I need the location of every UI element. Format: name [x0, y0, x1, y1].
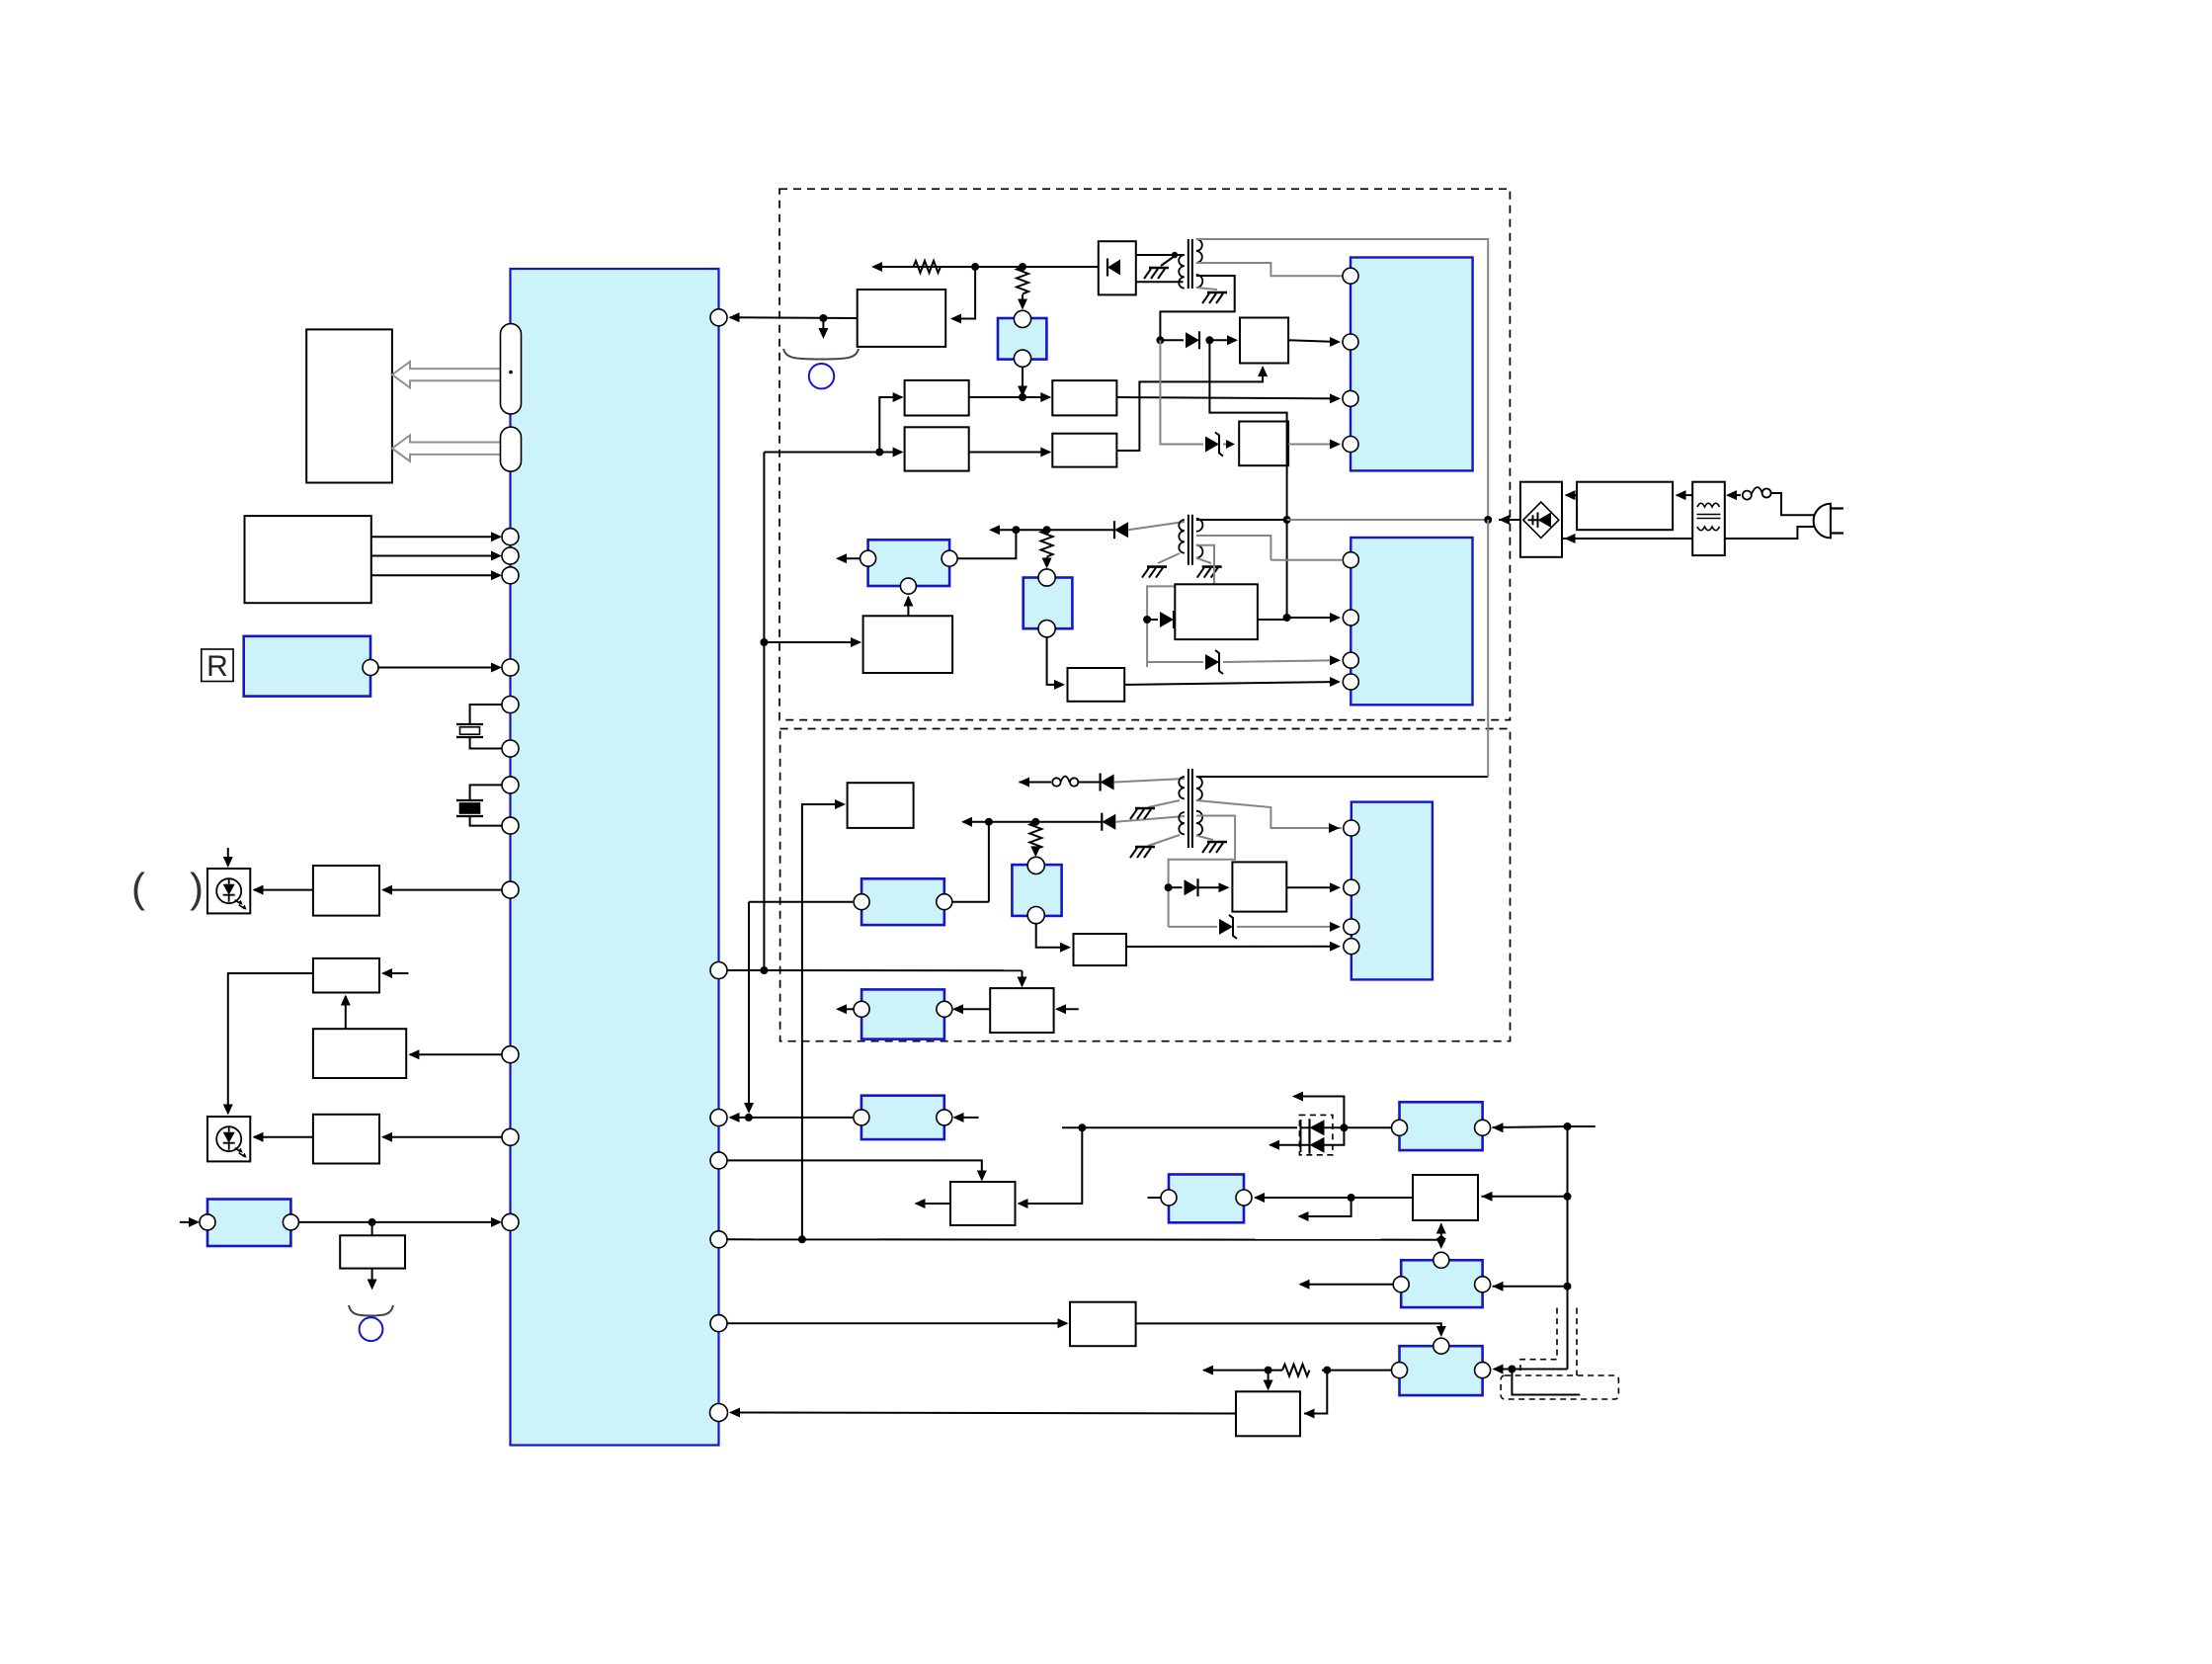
transformer T2 core — [1188, 515, 1192, 565]
wire dd top stub — [1294, 1097, 1345, 1128]
junction x1586 c — [1564, 1283, 1572, 1290]
wire B5 down — [371, 1269, 373, 1288]
wire W3 out — [1258, 619, 1287, 621]
wire T3 gnd3 lead — [1196, 836, 1213, 841]
pin TR3 top — [1434, 1338, 1449, 1354]
line filter box — [1577, 482, 1673, 531]
wire row2 — [963, 821, 1102, 823]
resistor R-sense — [914, 261, 942, 273]
IC2 pin1 — [1343, 268, 1358, 284]
wire reset to PC4 — [954, 1008, 991, 1010]
wire to comparator — [764, 641, 860, 643]
T1 right winding upper — [1196, 239, 1202, 263]
AC plug — [1814, 504, 1831, 539]
wire T1 to gnd right — [1196, 288, 1217, 290]
arrowhead — [491, 570, 502, 580]
zener Z3 — [1219, 919, 1233, 935]
node circle box1 — [809, 364, 834, 388]
svg-text:(: ( — [131, 865, 145, 911]
T1 right winding lower — [1196, 275, 1203, 288]
wire driver to T1 a — [1136, 254, 1185, 256]
wire Z2 to IC3 pin3 — [1223, 660, 1339, 662]
wire D1 to W1 — [1209, 339, 1236, 341]
block TR4 — [1169, 1175, 1244, 1223]
wire VR3 to W2 — [1047, 637, 1063, 685]
junction W3/B+ — [1283, 614, 1291, 622]
stub right of junction — [1568, 1125, 1596, 1127]
wire T1 top to riser — [1196, 239, 1488, 520]
dual diode DD1 — [1300, 1120, 1302, 1152]
IC pin key — [502, 567, 519, 584]
wire remote to IC — [378, 667, 500, 669]
wire junction to TR1 — [1493, 1126, 1568, 1127]
wire filter to bridge — [1566, 494, 1577, 496]
comparator box — [863, 616, 953, 673]
wire Z3 to IC4 pin3 — [1237, 926, 1339, 928]
wire into LED1 top — [227, 848, 229, 866]
T3 left winding lower — [1179, 812, 1185, 834]
wire fuse to plug hot — [1771, 493, 1815, 515]
wire IC to B3 — [410, 1053, 502, 1055]
transformer T1 core — [1188, 239, 1192, 289]
wire to protect right — [952, 267, 976, 319]
wire B2 to LED2 — [228, 973, 313, 1113]
junction connector — [1508, 1366, 1516, 1373]
bus arrow to display (lower) — [392, 436, 503, 461]
junction D6 anode — [1165, 883, 1173, 891]
IC2 pin4 — [1343, 437, 1358, 453]
wire R4 to VR2 — [1034, 850, 1036, 855]
regulator VR3 — [1024, 578, 1073, 629]
dashed connector strip — [1501, 1375, 1618, 1399]
wire B+ sense row — [873, 266, 1099, 268]
block TR3 — [1400, 1346, 1483, 1395]
wire T2 right gnd lead — [1196, 558, 1211, 563]
pin TR3 right — [1475, 1363, 1491, 1378]
junction row2 b — [1031, 818, 1039, 826]
IC connector pill 2 — [501, 427, 522, 471]
wire res left — [1203, 1370, 1282, 1372]
IC pin X1a — [502, 697, 519, 713]
IC pin standby B — [710, 1110, 727, 1126]
osc box A — [905, 380, 969, 416]
amp box AB1 — [1236, 1391, 1300, 1436]
wire T1 aux to diode — [1160, 276, 1234, 340]
pin TR4 right — [1236, 1190, 1252, 1206]
riser wire x812 — [802, 804, 844, 1239]
pin VR2 bottom — [1027, 907, 1044, 924]
IC pin D — [710, 1231, 727, 1248]
diode D2 — [1114, 522, 1128, 538]
T3 right winding upper — [1196, 777, 1202, 800]
block PC6 — [861, 1096, 944, 1139]
IC pin B1 — [502, 881, 519, 898]
wire right into AB1 — [1304, 1371, 1327, 1414]
drive box R1 — [1052, 380, 1116, 415]
junction R2 — [1019, 263, 1026, 271]
pin TR3 left — [1392, 1363, 1408, 1378]
reg box W1 — [1240, 318, 1288, 364]
resistor R4 — [1029, 822, 1041, 850]
pin PC6 left — [854, 1110, 869, 1125]
wire IC to B1 — [383, 889, 503, 891]
bridge rectifier BR1 — [1520, 482, 1562, 557]
ground T2 right — [1202, 565, 1222, 568]
ground T3 right — [1207, 841, 1227, 844]
junction T1 left — [1172, 252, 1178, 258]
arrowhead — [491, 532, 502, 541]
stub reset right — [1057, 1008, 1079, 1010]
ground T1 left — [1149, 267, 1169, 270]
pin TR2 left — [1393, 1277, 1409, 1292]
wire to TR3 right — [1514, 1369, 1568, 1371]
driver box B2 — [313, 958, 379, 993]
wire PC6 to IC — [730, 1117, 861, 1119]
wire fuse to PT — [1728, 494, 1742, 496]
pin VR1 bottom — [1014, 350, 1030, 367]
T1 left winding — [1179, 255, 1185, 289]
buzzer circle — [360, 1317, 383, 1341]
junction ACdet — [369, 1218, 376, 1226]
reg box W2 — [1068, 668, 1125, 702]
junction riser x812 — [798, 1235, 806, 1243]
wire AB1 to IC — [731, 1413, 1237, 1414]
reg box W1b — [1239, 422, 1288, 466]
pin VR1 top — [1014, 310, 1030, 327]
stub PC3 left — [838, 557, 860, 559]
reset box — [990, 988, 1053, 1033]
pin ACdet in — [200, 1214, 215, 1230]
wire T3 aux loop — [1169, 816, 1236, 927]
wire T2 left gnd lead — [1158, 553, 1180, 563]
regulator VR2 — [1012, 865, 1061, 916]
junction row2 a — [985, 818, 993, 826]
wire PC5 to row2 riser — [952, 901, 989, 903]
wire down to reset box — [1022, 970, 1024, 985]
IC pin X2b — [502, 817, 519, 834]
wire CB1 to TR3 — [1136, 1323, 1441, 1335]
riser DC to T3 — [1487, 520, 1489, 777]
reg box W3 — [1175, 584, 1258, 639]
wire stub down-left — [1299, 1198, 1352, 1216]
stub mute out — [916, 1203, 950, 1205]
wire junction to TR2 — [1493, 1286, 1565, 1288]
junction comparator feed — [760, 638, 768, 646]
T3 left winding upper — [1179, 777, 1185, 798]
junction D1 anode — [1156, 336, 1164, 344]
pin PC3 left — [860, 550, 876, 566]
stub into ACdet — [180, 1221, 198, 1223]
svg-text:): ) — [190, 865, 204, 911]
regulator VR1 — [998, 318, 1046, 360]
transformer T3 core — [1188, 769, 1192, 848]
pin TR2 top — [1434, 1252, 1449, 1268]
wire X2 top — [470, 785, 502, 800]
diode D3 — [1160, 612, 1174, 627]
wire PC3 to row2 — [957, 531, 1016, 558]
vertical wire x1586 — [1567, 1126, 1569, 1370]
detect block PC4 — [861, 989, 944, 1039]
wire comp to PC3 — [907, 597, 909, 616]
pin PC6 right — [937, 1110, 952, 1125]
standby box E1 — [848, 783, 914, 828]
block TR2 — [1401, 1260, 1482, 1307]
IC pin standby A — [710, 962, 727, 979]
wire to vreg1 — [1022, 294, 1024, 307]
junction DC rail — [1484, 516, 1492, 524]
block TR1 — [1400, 1102, 1483, 1150]
T3 right winding lower — [1196, 811, 1202, 836]
resistor R5 — [1282, 1365, 1310, 1376]
pin VR3 top — [1038, 569, 1055, 586]
wire pinC row — [727, 1160, 982, 1179]
IC3 pin2 — [1343, 610, 1358, 625]
wire to D3 — [1147, 619, 1158, 621]
wire down to AB1 — [1268, 1371, 1270, 1388]
junction T2 res — [1043, 526, 1051, 534]
IC pin E — [710, 1315, 727, 1332]
wire W1 to IC2 pin2 — [1288, 340, 1339, 342]
wire X1 bottom — [470, 737, 502, 749]
mute box — [950, 1182, 1016, 1225]
wire D5 to T3 — [1115, 816, 1185, 822]
pin PC5 left — [854, 894, 869, 910]
wire to zener Z1 — [1160, 340, 1203, 444]
IC3 pin4 — [1343, 674, 1358, 690]
bracket symbol — [349, 1305, 393, 1316]
junction updown — [1437, 1236, 1445, 1244]
drive box R2 — [1052, 434, 1116, 467]
wire to B5 — [371, 1222, 373, 1235]
IC2 pin2 — [1343, 334, 1358, 350]
display unit box — [306, 329, 392, 482]
wire T3 gnd2 lead — [1148, 835, 1180, 846]
diode D1 — [1186, 332, 1199, 348]
wire down to TR2 — [1440, 1240, 1442, 1247]
wire pinE row — [727, 1322, 1067, 1324]
dual diode lower — [1310, 1137, 1325, 1153]
wire dd right lower — [1325, 1127, 1345, 1144]
wire protect to IC — [730, 316, 858, 319]
pin VR3 bottom — [1038, 621, 1055, 637]
stub PC4 left — [838, 1008, 854, 1010]
IC4 pin1 — [1344, 820, 1359, 836]
power transformer PT box — [1692, 482, 1725, 555]
wire key line — [371, 536, 500, 538]
wire Z1 gap — [1223, 444, 1233, 446]
bus arrow to display (upper) — [392, 362, 503, 387]
key input box — [245, 516, 371, 603]
sub reg block PC5 — [861, 878, 944, 925]
wire DC rail to bridge — [1287, 519, 1489, 521]
wire D2 to T2 — [1128, 522, 1185, 530]
control box CB1 — [1070, 1302, 1136, 1347]
wire row2 to PC5 riser — [988, 822, 990, 902]
ground T3 left lower — [1135, 846, 1155, 849]
wire riser to PC5 — [749, 901, 853, 903]
dashed power box 2 — [780, 729, 1511, 1041]
opto feedback block PC3 — [868, 540, 950, 586]
IC3 pin3 — [1343, 652, 1358, 668]
junction box2 out — [1348, 1194, 1355, 1202]
IC pin ACdet — [502, 1213, 519, 1230]
pin TR1 left — [1392, 1120, 1408, 1135]
IC2 pin3 — [1343, 390, 1358, 406]
zener Z1 — [1205, 437, 1219, 453]
resistor R-drop — [1017, 267, 1028, 294]
wire T2 sense to IC3 pin1 — [1270, 559, 1343, 561]
diode D5 — [1102, 814, 1115, 830]
IC pin B4 — [502, 1128, 519, 1145]
wire key line — [371, 555, 500, 557]
riser x758 — [748, 902, 750, 1111]
wire TR3 left a — [1322, 1370, 1392, 1372]
wire row1 a — [1020, 782, 1052, 784]
pin VR2 top — [1027, 857, 1044, 874]
pin PC5 right — [937, 894, 952, 910]
standby out block IC4 — [1352, 802, 1433, 980]
dual diode dashed box — [1299, 1115, 1333, 1154]
bracket symbol box1 — [783, 1337, 785, 1339]
junction boxA feed — [875, 449, 883, 457]
wire W2 to IC3 pin4 — [1124, 682, 1339, 685]
stub into B2 right — [383, 972, 409, 974]
wire T3 gnd1 lead — [1148, 800, 1180, 807]
wire X1 top — [470, 705, 502, 724]
IC4 pin3 — [1344, 919, 1359, 935]
photocoupler block IC2 — [1351, 258, 1473, 471]
IC connector pill 1 — [501, 324, 522, 414]
diode in driver box — [1107, 260, 1120, 276]
pin PC4 right — [937, 1001, 952, 1017]
IC pin C — [710, 1152, 727, 1169]
wire T2 sec row — [991, 529, 1114, 531]
wire junction to SW1 — [1482, 1196, 1565, 1198]
wire PT to plug return — [1725, 527, 1816, 539]
junction drop to box1 — [1078, 1123, 1086, 1131]
wire T2 aux loop — [1147, 545, 1214, 667]
wire W1b to IC2 pin4 — [1288, 444, 1339, 446]
IC pin key — [502, 547, 519, 564]
wire B+ to T2/pin2 — [1209, 340, 1286, 618]
wire from riser to boxB — [764, 452, 902, 454]
photocoupler block IC3 — [1351, 538, 1472, 705]
wire X2 bottom — [470, 816, 502, 826]
pin TR4 left — [1161, 1190, 1177, 1206]
wire bridge to PT return a — [1562, 538, 1692, 540]
fuse F1 — [1743, 491, 1752, 500]
IC4 pin4 — [1344, 939, 1359, 955]
LED opto PC2 — [207, 1117, 250, 1161]
riser wire x773 — [763, 453, 765, 971]
wire B4 to LED2 — [254, 1136, 313, 1138]
reg box W4 — [1074, 934, 1127, 965]
wire bridge to rail — [1499, 519, 1520, 521]
switch box SW1 — [1413, 1175, 1478, 1220]
stub TR4 left — [1148, 1197, 1162, 1199]
arrowhead — [491, 551, 502, 561]
resistor R3 — [1041, 530, 1053, 557]
junction vert1586 top — [1564, 1123, 1572, 1130]
ground T3 left upper — [1135, 807, 1155, 810]
wire ACdet to IC — [298, 1221, 500, 1223]
wire dd to TR1 — [1325, 1126, 1397, 1128]
wire to D1 — [1160, 339, 1184, 341]
junction VR1 out — [1019, 393, 1026, 401]
system-control IC U1 — [511, 269, 719, 1446]
svg-text:R: R — [206, 650, 228, 683]
ground T1 right — [1207, 291, 1227, 294]
junction dd right — [1340, 1123, 1348, 1131]
IC4 pin2 — [1344, 879, 1359, 895]
wire to D6 — [1169, 886, 1183, 888]
driver box B1 — [313, 866, 379, 916]
junction res left — [1265, 1367, 1272, 1374]
IC pin X2a — [502, 777, 519, 793]
wire D6 to W5 — [1198, 886, 1228, 888]
IC pin key — [502, 529, 519, 545]
wire VR1 to row — [1022, 367, 1024, 394]
T2 right winding lower — [1196, 545, 1203, 558]
junction D3 anode — [1143, 616, 1151, 624]
wire dd a — [1301, 1126, 1310, 1128]
osc box B — [905, 427, 969, 470]
wire gnd stub T1 left — [1161, 256, 1175, 266]
pin ACdet out — [283, 1214, 298, 1230]
pin TR2 right — [1475, 1277, 1491, 1292]
junction protect — [819, 314, 827, 322]
junction riser x758 — [745, 1114, 753, 1122]
wire D3 to W3 — [1174, 619, 1181, 621]
wire up to SW1 — [1440, 1224, 1442, 1240]
junction pinA row — [760, 966, 768, 974]
wire driver to T1 b — [1136, 281, 1184, 283]
ground T2 left — [1147, 565, 1167, 568]
wire R2 to 5V box — [1116, 368, 1263, 451]
wire dd lower out — [1270, 1144, 1310, 1146]
wire row1 b — [1078, 782, 1100, 784]
wire R1 to IC2 pin3 — [1116, 397, 1339, 398]
wire pinA row — [727, 969, 1023, 971]
driver bridge box — [1099, 241, 1136, 294]
wire boxB to R2 — [969, 452, 1050, 454]
driver box B4 — [313, 1115, 379, 1164]
protect box — [858, 290, 946, 347]
wire dual-diode row — [1062, 1126, 1297, 1128]
wire T1 to IC2 pin1 — [1196, 263, 1343, 276]
remote sensor block — [244, 636, 370, 697]
arrowhead — [491, 663, 502, 673]
box B5 — [340, 1235, 405, 1268]
T2 left winding — [1179, 520, 1185, 553]
crystal X2 — [456, 800, 483, 816]
diode D4 — [1101, 775, 1114, 790]
IC3 pin1 — [1343, 552, 1358, 568]
IC pin remote — [502, 659, 519, 676]
pin PC4 left — [854, 1001, 869, 1017]
pin TR1 right — [1475, 1120, 1491, 1135]
wire T3 primary to riser — [1196, 776, 1488, 778]
wire to IC3 pin2 — [1287, 617, 1339, 619]
wire dd net to mute box — [1019, 1127, 1082, 1204]
wire pinD row — [727, 1238, 1441, 1240]
wire W5 to IC4 pin2 — [1286, 886, 1339, 888]
remote sensor icon R — [202, 649, 233, 682]
dashed power box 1 — [779, 189, 1510, 719]
IC pin F — [710, 1404, 728, 1422]
wire IC to B4 — [383, 1136, 503, 1138]
wire to zener Z3 — [1169, 926, 1217, 928]
